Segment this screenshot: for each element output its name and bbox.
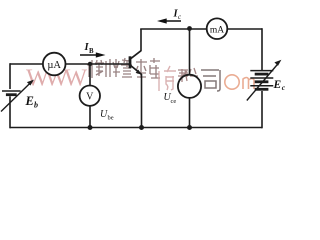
current arrow IB [80,54,98,56]
svg-text:b: b [34,101,38,110]
wire: collector vertical [140,29,142,51]
wire: voltmeter V bottom branch [89,106,91,128]
transistor Q1 emitter stroke with arrow [131,65,142,74]
battery Ec variable arrow [247,64,278,101]
current arrow Ic [163,20,181,22]
svg-text:be: be [108,115,114,122]
svg-text:E: E [273,79,282,91]
transistor Q1 base bar [129,56,132,68]
watermark WWW letters [26,65,88,92]
node: bottom rail below V meter [88,125,93,130]
svg-text:B: B [89,48,94,55]
watermark fake CJK characters row 1 [87,58,160,78]
node: bottom rail below Uce meter [187,125,192,130]
milliammeter mA [207,18,228,39]
wire: rail from microammeter to transistor base [66,63,131,65]
wire: top rail from mA meter to right corner [227,28,262,30]
svg-text:V: V [86,92,94,103]
voltmeter V (Ube) [80,86,100,106]
svg-text:E: E [25,94,34,108]
watermark char dense behind Uce meter [178,68,198,82]
wire: top rail from collector corner to mA meter [140,28,207,30]
svg-text:c: c [178,14,181,21]
svg-text:µA: µA [47,60,61,71]
node: bottom rail below emitter [139,125,144,130]
battery Ec plates [250,70,273,72]
svg-text:ce: ce [171,98,177,105]
watermark com orange [225,75,254,89]
wire: Uce voltmeter bottom branch [189,98,191,128]
transistor Q1 collector stroke [131,51,142,59]
watermark fake CJK characters row 2 [159,66,176,91]
battery Eb long plate [2,90,21,92]
watermark char si dark [201,70,220,91]
wire: top-left rail from left corner to microammeter [10,63,43,65]
wire: Uce voltmeter top branch [189,29,191,76]
wire: right vertical upper (corner to Ec battery) [261,28,263,70]
wire: right vertical lower (Ec battery to bottom rail) [261,91,263,128]
voltmeter Uce (symbol obscured) [178,75,201,98]
wire: voltmeter V top branch [89,64,91,86]
node: junction top rail/Uce meter [187,26,192,31]
node: junction base/V-meter [88,62,92,66]
svg-text:mA: mA [210,25,224,35]
battery Eb variable arrow [1,83,31,112]
wire: bottom rail [10,127,262,129]
wire: left vertical lower (Eb battery to bottom rail) [9,96,11,128]
microammeter uA [43,53,66,76]
wire: emitter vertical down to bottom rail [141,74,143,128]
battery Eb short plate [6,93,17,96]
wire: left vertical upper (corner to Eb battery) [9,63,11,89]
